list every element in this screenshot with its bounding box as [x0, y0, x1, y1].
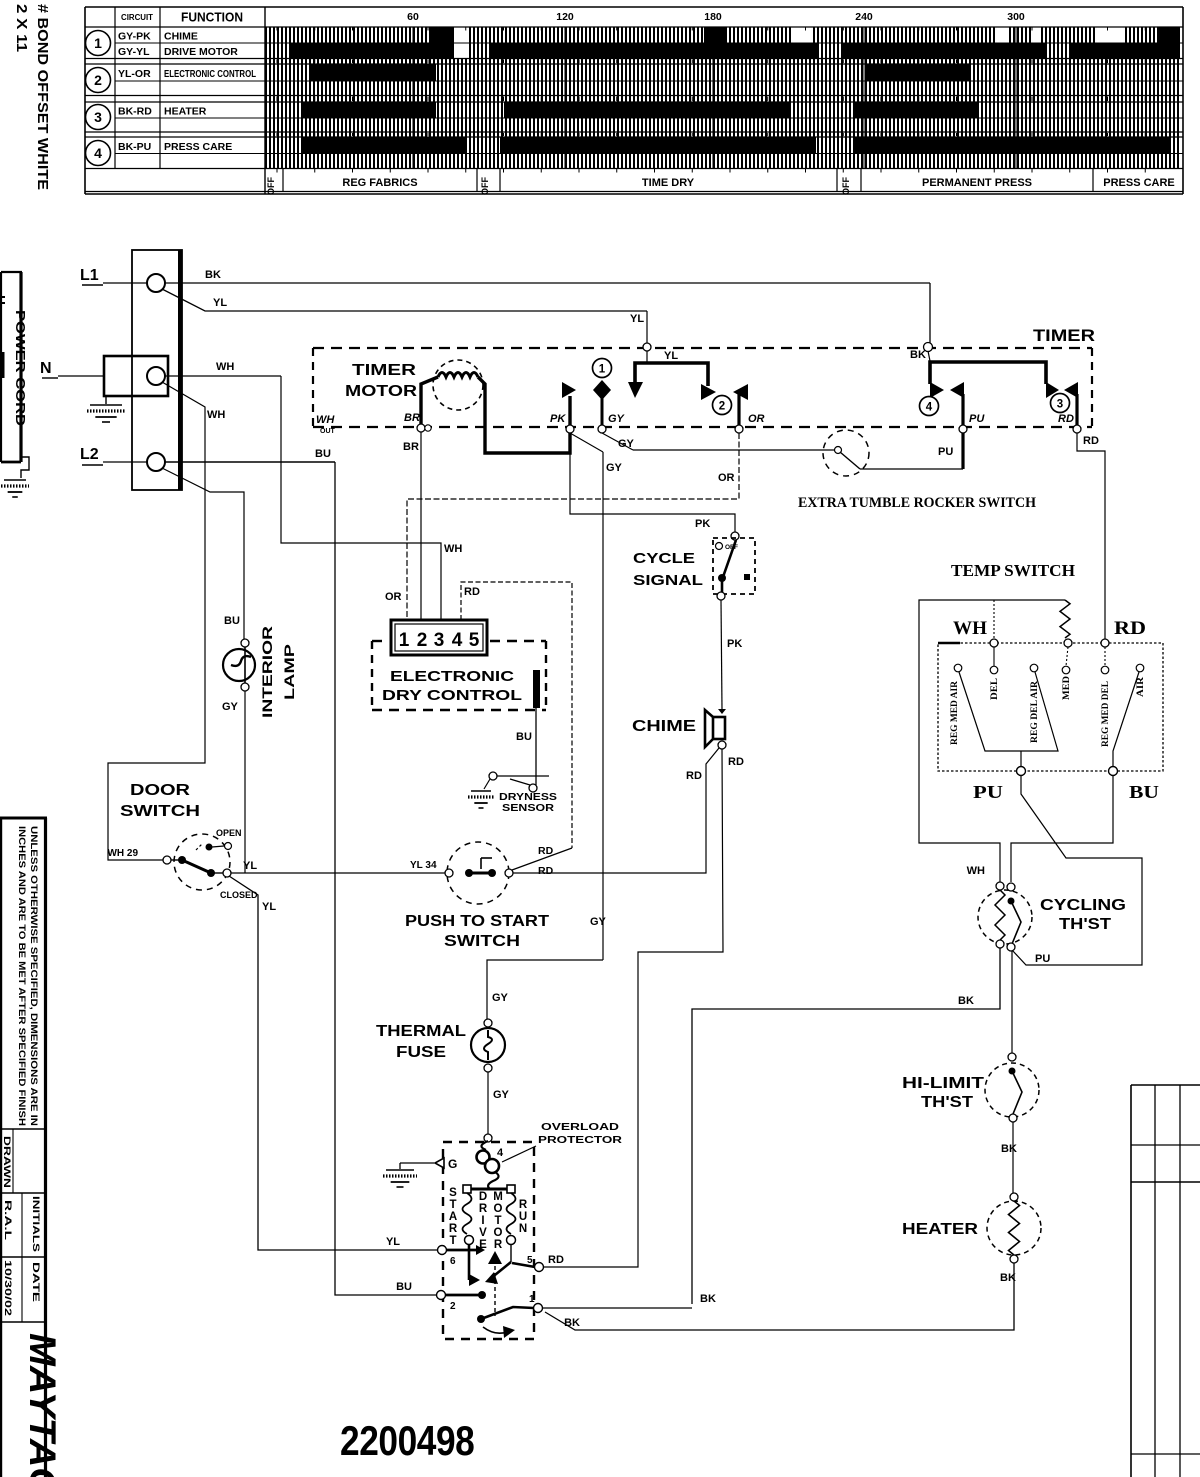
svg-text:M: M	[493, 1191, 503, 1203]
terminal YL top	[643, 343, 651, 351]
svg-text:BK-PU: BK-PU	[118, 141, 151, 153]
drawing number 2200498	[340, 1418, 474, 1465]
RD wire chime to motor T5	[543, 749, 723, 1267]
svg-text:GY: GY	[618, 438, 635, 450]
svg-text:REG FABRICS: REG FABRICS	[342, 177, 417, 189]
svg-text:R.A.L: R.A.L	[2, 1200, 13, 1240]
start winding	[463, 1193, 472, 1234]
GY wire fuse to motor overload	[487, 1072, 489, 1134]
svg-text:# BOND OFFSET WHITE: # BOND OFFSET WHITE	[34, 4, 50, 190]
svg-text:A: A	[449, 1211, 457, 1223]
svg-text:S: S	[449, 1187, 457, 1199]
svg-text:R: R	[494, 1239, 503, 1251]
timer motor	[433, 360, 483, 410]
bottom-right title block (cut off)	[1131, 1084, 1200, 1086]
svg-text:R: R	[479, 1203, 488, 1215]
svg-text:OUT: OUT	[320, 428, 336, 435]
svg-text:MOTOR: MOTOR	[345, 383, 418, 400]
svg-text:MAYTAG: MAYTAG	[22, 1333, 63, 1477]
svg-text:120: 120	[556, 11, 574, 23]
chart circuit number 4	[86, 141, 111, 166]
svg-text:CIRCUIT: CIRCUIT	[121, 13, 153, 22]
svg-text:2: 2	[417, 630, 428, 651]
terminal BK top	[924, 343, 933, 352]
wire cycling to hi-limit	[1011, 951, 1013, 1053]
svg-text:RD: RD	[686, 770, 702, 782]
heat anticipator resistor	[1060, 600, 1070, 638]
ELECTRONIC DRY CONTROL dashed box	[372, 640, 388, 642]
svg-text:SENSOR: SENSOR	[502, 803, 555, 814]
chart bar row r3b	[265, 118, 1180, 132]
svg-text:BK-RD: BK-RD	[118, 106, 152, 118]
svg-text:GY: GY	[493, 1089, 510, 1101]
start switch contacts	[468, 1245, 471, 1280]
svg-text:60: 60	[407, 11, 419, 23]
svg-text:SIGNAL: SIGNAL	[633, 572, 703, 589]
svg-text:TH'ST: TH'ST	[921, 1094, 974, 1111]
wire YL from L1	[162, 289, 647, 311]
moisture sensor element	[533, 670, 540, 708]
svg-text:O: O	[494, 1227, 503, 1239]
wire N to box	[58, 375, 104, 377]
chart bottom cycle-label row	[282, 169, 284, 192]
svg-text:BU: BU	[516, 731, 532, 743]
svg-text:BU: BU	[224, 615, 240, 627]
svg-text:RD: RD	[728, 756, 744, 768]
cycle signal switch	[731, 532, 739, 540]
chart table lines	[85, 6, 1183, 8]
svg-text:I: I	[481, 1215, 484, 1227]
hi-limit thermostat	[985, 1063, 1039, 1117]
svg-text:PU: PU	[969, 413, 985, 425]
svg-text:4: 4	[452, 630, 463, 651]
wire BK from L1 to timer	[165, 282, 930, 284]
svg-text:SWITCH: SWITCH	[444, 933, 520, 950]
timer contact 3	[1046, 382, 1059, 398]
svg-text:UNLESS OTHERWISE SPECIFIED, DI: UNLESS OTHERWISE SPECIFIED, DIMENSIONS A…	[29, 826, 39, 1126]
svg-text:L2: L2	[80, 446, 99, 463]
svg-text:PU: PU	[1035, 953, 1050, 965]
svg-text:GY: GY	[492, 992, 509, 1004]
selector blades	[959, 672, 1058, 751]
chart bar row r1a	[265, 28, 1180, 44]
svg-text:L1: L1	[80, 267, 99, 284]
svg-text:RD: RD	[538, 865, 554, 877]
svg-text:N: N	[519, 1223, 527, 1235]
terminal block	[132, 250, 182, 490]
chart bar row r3a	[265, 102, 1180, 118]
svg-text:RD: RD	[538, 845, 554, 857]
GY wire to thermal fuse	[487, 960, 603, 1019]
temp switch outer WH loop	[919, 600, 1065, 882]
svg-text:REG MED AIR: REG MED AIR	[950, 681, 960, 745]
svg-text:BK: BK	[564, 1317, 580, 1329]
svg-text:BK: BK	[958, 995, 974, 1007]
contact1-2 YL bus	[646, 351, 648, 362]
push to start switch	[447, 842, 509, 904]
svg-text:TH'ST: TH'ST	[1059, 916, 1112, 933]
terminal BR	[417, 424, 425, 432]
svg-text:FUSE: FUSE	[396, 1044, 446, 1061]
svg-text:T: T	[449, 1235, 456, 1247]
svg-text:1: 1	[529, 1294, 535, 1305]
svg-text:BR: BR	[404, 412, 420, 424]
svg-text:G: G	[448, 1157, 457, 1171]
svg-text:YL-OR: YL-OR	[118, 68, 151, 80]
chart bar row r1b	[265, 43, 1180, 59]
cycling thermostat	[978, 890, 1032, 944]
svg-text:YL: YL	[243, 860, 257, 872]
svg-text:WH: WH	[953, 618, 987, 639]
svg-text:TEMP SWITCH: TEMP SWITCH	[951, 561, 1075, 580]
svg-text:N: N	[40, 360, 52, 377]
svg-text:3: 3	[434, 630, 445, 651]
svg-text:HEATER: HEATER	[902, 1221, 978, 1238]
svg-text:YL: YL	[262, 901, 276, 913]
svg-text:4: 4	[497, 1147, 504, 1159]
svg-text:DRYNESS: DRYNESS	[499, 792, 557, 803]
svg-text:10/30/02: 10/30/02	[2, 1260, 13, 1316]
BU wire to dryness sensor	[535, 708, 537, 785]
svg-text:BU: BU	[1129, 782, 1159, 802]
power cord exit + ground	[21, 457, 29, 478]
terminal 6	[438, 1246, 447, 1255]
motor winding bar	[467, 1188, 511, 1191]
svg-text:WH: WH	[967, 865, 985, 877]
centrifugal arm	[488, 1251, 502, 1264]
chart circuit number 3	[86, 105, 111, 130]
svg-text:HI-LIMIT: HI-LIMIT	[902, 1075, 985, 1092]
svg-text:WH 29: WH 29	[107, 848, 138, 859]
svg-text:AIR: AIR	[1136, 677, 1146, 697]
svg-text:2: 2	[719, 401, 725, 413]
OR wire timer contact2 to EDC pin1	[407, 433, 739, 620]
interior lamp	[223, 649, 255, 681]
svg-text:1: 1	[599, 364, 606, 376]
svg-text:4: 4	[94, 145, 102, 161]
chart gridlines	[412, 27, 414, 169]
svg-text:5: 5	[469, 630, 480, 651]
svg-text:YL: YL	[213, 297, 227, 309]
contact points	[954, 664, 962, 672]
svg-text:GY-YL: GY-YL	[118, 46, 150, 58]
svg-text:PROTECTOR: PROTECTOR	[538, 1134, 623, 1146]
svg-text:CYCLE: CYCLE	[633, 550, 695, 567]
svg-text:BK: BK	[205, 269, 221, 281]
svg-text:T: T	[494, 1215, 501, 1227]
svg-text:RD: RD	[464, 586, 480, 598]
svg-text:PK: PK	[550, 413, 566, 425]
svg-text:FUNCTION: FUNCTION	[181, 11, 243, 25]
svg-text:BK: BK	[1001, 1143, 1017, 1155]
wire L1 lead	[103, 282, 147, 284]
terminal PK	[566, 425, 574, 433]
svg-text:RD: RD	[1058, 413, 1074, 425]
svg-text:PU: PU	[938, 446, 953, 458]
svg-text:REG MED DEL: REG MED DEL	[1101, 681, 1111, 747]
BK wire hi-limit to heater	[1012, 1122, 1014, 1193]
N terminal box	[104, 356, 168, 396]
PK wire to chime	[721, 600, 722, 709]
svg-text:R: R	[449, 1223, 458, 1235]
svg-text:LAMP: LAMP	[281, 644, 297, 700]
svg-text:BK: BK	[910, 349, 926, 361]
temp switch inner box	[938, 643, 1163, 771]
wire BU branch to interior lamp	[162, 468, 244, 639]
svg-text:PU: PU	[973, 782, 1003, 802]
svg-text:DEL: DEL	[990, 678, 1000, 700]
svg-text:GY-PK: GY-PK	[118, 31, 151, 43]
svg-text:OVERLOAD: OVERLOAD	[541, 1121, 620, 1133]
svg-text:CYCLING: CYCLING	[1040, 897, 1126, 914]
RD wire to temp switch	[1077, 433, 1105, 640]
svg-text:PERMANENT PRESS: PERMANENT PRESS	[922, 177, 1032, 189]
svg-text:BR: BR	[403, 441, 419, 453]
svg-text:ELECTRONIC: ELECTRONIC	[390, 668, 514, 685]
svg-text:THERMAL: THERMAL	[376, 1023, 466, 1040]
terminal PU	[959, 425, 967, 433]
terminal 2	[437, 1291, 446, 1300]
svg-text:1: 1	[94, 35, 102, 51]
svg-text:3: 3	[1057, 399, 1063, 411]
svg-text:180: 180	[704, 11, 722, 23]
svg-text:300: 300	[1007, 11, 1025, 23]
box-edge terminals	[993, 600, 995, 640]
svg-text:4: 4	[926, 402, 933, 414]
contact stems	[993, 647, 995, 666]
wire BU from L2	[165, 461, 335, 463]
svg-text:D: D	[479, 1191, 487, 1203]
terminal OR	[735, 425, 743, 433]
svg-text:2200498: 2200498	[340, 1418, 474, 1465]
svg-text:O: O	[494, 1203, 503, 1215]
RD wires from push-to-start	[512, 848, 572, 870]
svg-text:WH: WH	[216, 361, 234, 373]
svg-text:INTERIOR: INTERIOR	[259, 626, 275, 718]
terminal RD	[1073, 425, 1081, 433]
svg-text:PK: PK	[727, 638, 742, 650]
svg-text:TIMER: TIMER	[352, 362, 417, 379]
TIMER dashed box	[313, 347, 1092, 349]
svg-text:T: T	[449, 1199, 456, 1211]
wire WH from N to door switch	[108, 382, 205, 860]
svg-text:EXTRA TUMBLE ROCKER SWITCH: EXTRA TUMBLE ROCKER SWITCH	[798, 495, 1036, 511]
svg-text:5: 5	[527, 1255, 533, 1266]
PU/BU output terminals	[1017, 767, 1026, 776]
svg-text:DATE: DATE	[30, 1262, 41, 1302]
svg-text:2 X 11: 2 X 11	[13, 4, 29, 52]
extra tumble rocker switch	[633, 449, 834, 451]
svg-text:WH: WH	[316, 414, 335, 426]
svg-text:RD: RD	[548, 1254, 564, 1266]
svg-text:PRESS CARE: PRESS CARE	[164, 141, 232, 153]
svg-text:YL 34: YL 34	[410, 860, 437, 871]
svg-text:REG DEL AIR: REG DEL AIR	[1030, 681, 1040, 743]
svg-text:DRAWN: DRAWN	[1, 1136, 12, 1188]
BU wire to cycling contact	[1011, 776, 1113, 882]
BK wire cycling to motor T1	[692, 948, 1000, 1304]
svg-text:RD: RD	[1083, 435, 1099, 447]
svg-text:ELECTRONIC CONTROL: ELECTRONIC CONTROL	[164, 68, 256, 80]
svg-text:240: 240	[855, 11, 873, 23]
terminal 5	[512, 1263, 535, 1267]
contact4-3 BK bus	[928, 351, 930, 361]
svg-text:SWITCH: SWITCH	[120, 803, 200, 820]
svg-text:2: 2	[94, 72, 102, 88]
svg-text:YL: YL	[386, 1236, 400, 1248]
svg-text:CHIME: CHIME	[632, 718, 696, 735]
heater element	[987, 1201, 1041, 1255]
wire WH from N to electronic dry control	[165, 375, 281, 377]
svg-text:RD: RD	[1114, 618, 1146, 639]
PU wire to cycling thermostat	[1012, 776, 1142, 965]
chart bar row r2a	[265, 64, 1180, 81]
svg-text:OR: OR	[718, 472, 735, 484]
svg-text:BK: BK	[700, 1293, 716, 1305]
ground at N box	[105, 396, 107, 404]
svg-text:PRESS CARE: PRESS CARE	[1103, 177, 1175, 189]
svg-text:OPEN: OPEN	[216, 828, 242, 838]
svg-text:V: V	[479, 1227, 487, 1239]
svg-text:OR: OR	[385, 591, 402, 603]
timer contact 2	[713, 396, 732, 415]
svg-text:R: R	[519, 1199, 528, 1211]
timer contact 1	[568, 396, 571, 429]
svg-text:6: 6	[450, 1256, 456, 1267]
RD wire chime to push-to-start	[513, 748, 719, 873]
svg-text:WH: WH	[444, 543, 462, 555]
svg-text:MED: MED	[1062, 676, 1072, 700]
svg-text:DRIVE MOTOR: DRIVE MOTOR	[164, 46, 238, 58]
drawn cell	[12, 1129, 14, 1193]
svg-text:PUSH TO START: PUSH TO START	[405, 913, 550, 930]
GY vertical long wire	[602, 452, 604, 960]
svg-text:OFF: OFF	[841, 177, 851, 195]
svg-text:OR: OR	[748, 413, 765, 425]
dryness sensor	[489, 772, 497, 780]
svg-text:DRY CONTROL: DRY CONTROL	[382, 687, 522, 704]
GY diagonal + crossing under timer	[602, 433, 633, 450]
svg-text:HEATER: HEATER	[164, 106, 207, 118]
chart circuit number 2	[86, 68, 111, 93]
svg-text:1: 1	[399, 630, 410, 651]
chart bar row r2b	[265, 81, 1180, 96]
terminal L2	[147, 453, 165, 471]
svg-text:TIMER: TIMER	[1033, 326, 1095, 345]
BK wire heater to motor switch	[545, 1263, 1014, 1330]
svg-text:YL: YL	[630, 313, 644, 325]
svg-text:WH: WH	[207, 409, 225, 421]
svg-text:OFF: OFF	[480, 177, 490, 195]
svg-text:BU: BU	[315, 448, 331, 460]
terminal GY	[598, 425, 606, 433]
terminal N	[147, 367, 165, 385]
YL wire to push-to-start	[231, 872, 446, 874]
svg-text:INCHES AND ARE TO BE MET AFTER: INCHES AND ARE TO BE MET AFTER SPECIFIED…	[17, 826, 27, 1126]
run winding	[507, 1193, 516, 1234]
svg-text:INITIALS: INITIALS	[30, 1196, 41, 1252]
svg-text:GY: GY	[606, 462, 623, 474]
EDC connector block 1 2 3 4 5	[391, 620, 487, 655]
terminal L1	[147, 274, 165, 292]
timer contact 4	[920, 397, 939, 416]
chart circuit number 1	[86, 31, 111, 56]
GY wire lamp to YL node	[244, 691, 246, 873]
svg-text:GY: GY	[222, 701, 239, 713]
BR wire to EDC pin2	[420, 432, 422, 620]
left title block border	[0, 817, 47, 820]
chart bar row r4b	[265, 154, 1180, 169]
PU wire to timer terminal	[961, 433, 964, 469]
svg-text:YL: YL	[664, 350, 678, 362]
svg-text:U: U	[519, 1211, 527, 1223]
motor relay contact	[477, 1315, 485, 1323]
closed contact lever	[182, 860, 211, 873]
svg-text:TIME DRY: TIME DRY	[642, 177, 695, 189]
svg-text:OFF: OFF	[266, 177, 276, 195]
wire L2 lead	[103, 461, 147, 463]
svg-text:2: 2	[450, 1301, 456, 1312]
svg-text:3: 3	[94, 109, 102, 125]
svg-text:CHIME: CHIME	[164, 31, 198, 43]
svg-text:BU: BU	[396, 1281, 412, 1293]
svg-text:GY: GY	[590, 916, 607, 928]
PK wire timer to cycle signal	[570, 453, 735, 532]
svg-text:POWER CORD: POWER CORD	[13, 310, 27, 426]
RD wire pin4 to push-to-start	[461, 582, 572, 848]
overload protector	[484, 1134, 492, 1142]
YL wire down to motor	[229, 876, 438, 1250]
svg-text:GY: GY	[608, 413, 626, 425]
chart bar row r4a	[265, 137, 1180, 154]
power cord box	[1, 271, 22, 273]
svg-text:DOOR: DOOR	[130, 782, 190, 799]
ground + G terminal	[400, 1162, 434, 1164]
BK wire T1 to cycling	[543, 1307, 692, 1309]
drive motor dashed box	[443, 1142, 534, 1339]
svg-text:PK: PK	[695, 518, 710, 530]
